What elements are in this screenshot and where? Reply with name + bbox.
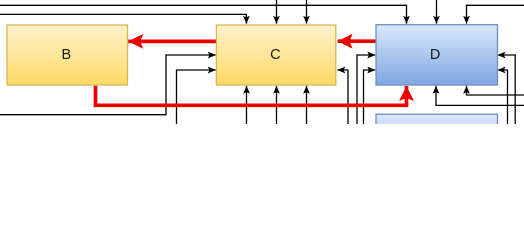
svg-text:B: B xyxy=(61,47,71,63)
svg-text:C: C xyxy=(270,47,280,63)
svg-text:D: D xyxy=(430,47,440,63)
